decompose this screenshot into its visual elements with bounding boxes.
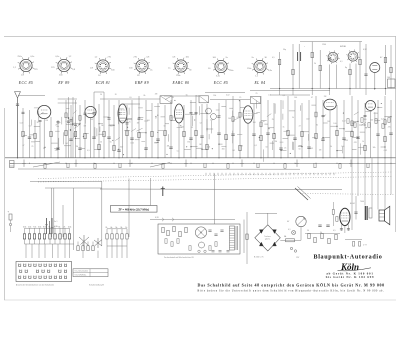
capacitor [107, 136, 110, 138]
svg-text:50µ: 50µ [283, 49, 286, 51]
svg-text:5k: 5k [320, 232, 322, 234]
wire stub [76, 137, 80, 139]
wire stage column [183, 105, 185, 158]
wire stage column [343, 100, 345, 158]
resistor [65, 130, 67, 135]
wire stub [264, 123, 268, 125]
wire stub [202, 148, 208, 150]
capacitor [92, 136, 95, 138]
svg-text:25: 25 [284, 147, 286, 149]
right lower small parts [308, 233, 337, 243]
wire stage column [75, 100, 77, 158]
Koeln underline flourish [338, 268, 372, 271]
svg-text:EZ 80: EZ 80 [340, 46, 346, 48]
svg-text:6.5k: 6.5k [68, 226, 71, 228]
wire stub [196, 147, 203, 149]
border frame right edge [395, 37, 397, 233]
svg-text:0,1: 0,1 [255, 145, 258, 147]
svg-text:270: 270 [51, 67, 55, 69]
value labels power section [272, 44, 390, 79]
capacitor small [322, 114, 325, 116]
wire power section [311, 42, 313, 89]
wire right verticals 2 [352, 158, 391, 230]
wire stub [35, 140, 40, 142]
wire stage column [267, 100, 269, 158]
IF transformer can Fi1 [160, 96, 172, 104]
svg-text:50: 50 [164, 126, 166, 128]
wire vertical pair A [51, 188, 53, 237]
capacitor [144, 147, 147, 149]
svg-text:6,3v: 6,3v [268, 70, 272, 72]
wire stub [298, 144, 302, 146]
svg-text:1M: 1M [171, 97, 174, 99]
wire FM mid column a [68, 97, 70, 158]
wire stub [381, 146, 385, 148]
wire stage column [145, 100, 147, 158]
wire stub [139, 132, 146, 134]
wire stub [289, 110, 295, 112]
svg-text:0,02: 0,02 [384, 150, 388, 152]
svg-text:30k: 30k [110, 125, 113, 127]
wire interstage top [205, 92, 245, 94]
svg-text:0,02: 0,02 [130, 142, 134, 144]
FM mid blobs [68, 117, 70, 119]
wire stub [344, 139, 348, 141]
wire stub [200, 112, 207, 114]
svg-text:gleichr.: gleichr. [265, 238, 271, 241]
capacitor [279, 147, 282, 149]
wire stub [30, 134, 34, 136]
vibrator box bottom row parts [198, 250, 230, 252]
diagonal jumper wire 2 [150, 163, 170, 168]
svg-text:0,5: 0,5 [283, 95, 286, 97]
bus wire y158 [5, 157, 396, 159]
resistor power section [349, 69, 351, 74]
fuse stack arrows [45, 224, 47, 226]
svg-text:270: 270 [34, 69, 38, 71]
vibrator rotary symbol [195, 227, 206, 238]
wire vertical E [128, 179, 130, 238]
battery terminal circle 1 [290, 247, 292, 249]
tube pentode V4 EBF89 envelope [243, 106, 253, 123]
svg-text:50: 50 [100, 94, 102, 96]
wire left of EL84 [332, 202, 334, 210]
wire bridge left vertical [246, 212, 248, 264]
power drop wires [280, 89, 386, 96]
wire interstage top [250, 90, 330, 92]
fuse box right [388, 79, 396, 88]
svg-text:0,02: 0,02 [342, 121, 346, 123]
svg-text:300: 300 [364, 119, 367, 121]
svg-text:0,8: 0,8 [90, 68, 94, 70]
capacitor [321, 138, 324, 140]
wire heater rail [150, 219, 235, 221]
resistor [364, 145, 366, 150]
battery terminal circle 2 [294, 250, 296, 252]
svg-text:0,8: 0,8 [21, 74, 25, 76]
svg-text:6,3V: 6,3V [363, 49, 367, 51]
right lower wire [305, 233, 340, 235]
wire power section [390, 45, 392, 89]
svg-text:50: 50 [299, 148, 301, 150]
wire feeder horizontal y181 [30, 180, 102, 182]
svg-text:1M: 1M [45, 120, 48, 122]
capacitor near EL84 [354, 211, 357, 213]
tube triode V6 envelope [366, 101, 376, 111]
resistor [151, 131, 153, 136]
svg-text:100: 100 [370, 119, 373, 121]
wire stage column [70, 105, 72, 158]
wire drop from dotted to ZF [150, 178, 152, 206]
svg-text:EL 84: EL 84 [253, 81, 265, 85]
capacitor small [138, 117, 141, 119]
wire power section [328, 65, 330, 89]
vibrator small circle [199, 242, 205, 248]
wire stub [146, 110, 152, 112]
resistor [50, 131, 52, 136]
wire FM mid column b [72, 97, 74, 158]
wire stage column [34, 120, 36, 158]
svg-text:1M: 1M [65, 143, 68, 145]
svg-text:25: 25 [272, 119, 274, 121]
volume control slanted wire 1 [295, 188, 308, 200]
wire x356 [355, 196, 357, 220]
svg-text:470: 470 [55, 150, 58, 152]
capacitor [169, 146, 172, 148]
wire tube cathode drop [247, 123, 249, 158]
resistor power section [359, 59, 361, 64]
wire stub [359, 124, 365, 126]
wire stub [330, 125, 337, 127]
wire stage column [65, 100, 67, 158]
svg-text:EY: EY [380, 57, 383, 59]
potentiometer body [296, 216, 306, 226]
wire stage column [384, 96, 386, 158]
left edge wire [10, 220, 12, 223]
chassis dotted line B [38, 177, 392, 183]
capacitor under EL84 b [347, 228, 350, 230]
svg-text:47: 47 [299, 126, 301, 128]
svg-text:+: + [8, 211, 10, 214]
resistor ladder row 3 [105, 227, 128, 246]
tone cap stack [318, 225, 329, 227]
resistor [183, 131, 185, 136]
svg-text:5k: 5k [115, 227, 117, 229]
svg-text:30k: 30k [373, 147, 376, 149]
svg-text:0,02: 0,02 [20, 123, 24, 125]
antenna coupling cap [16, 103, 19, 105]
wire stage column [273, 103, 275, 158]
wire power section [374, 73, 376, 91]
wire stage column [294, 100, 296, 158]
tube socket pinout EL 84 (V7) [247, 57, 272, 77]
resistor [84, 133, 86, 138]
svg-text:20: 20 [217, 117, 219, 119]
resistor [113, 145, 115, 150]
svg-text:100: 100 [341, 146, 344, 148]
svg-text:0,02: 0,02 [306, 119, 310, 121]
wire stub [283, 138, 289, 140]
svg-text:50: 50 [191, 127, 193, 129]
capacitor small [218, 115, 221, 117]
left edge terminal group [9, 214, 12, 220]
capacitor small [190, 112, 193, 114]
svg-text:D 77: D 77 [363, 245, 367, 247]
wire power section [355, 64, 357, 89]
chassis dotted line A [38, 172, 392, 179]
wire stage column [98, 104, 100, 158]
svg-text:8A: 8A [284, 235, 287, 238]
svg-text:47: 47 [155, 117, 157, 119]
comb ticks along chassis line [206, 173, 334, 175]
svg-text:20: 20 [100, 142, 102, 144]
capacitor [231, 133, 234, 135]
wire stub [31, 141, 35, 143]
wire vertical B [62, 205, 64, 237]
svg-text:5k: 5k [186, 94, 188, 96]
svg-text:2k: 2k [314, 63, 316, 65]
svg-text:25: 25 [43, 148, 45, 150]
wire stub [270, 142, 274, 144]
svg-text:0,25: 0,25 [381, 119, 385, 121]
legend table [73, 269, 108, 277]
wire stage column [113, 105, 115, 158]
wire stub [339, 128, 344, 130]
svg-text:2a: 2a [226, 57, 229, 59]
svg-text:0,02: 0,02 [310, 148, 314, 150]
capacitor small [93, 112, 96, 114]
resistor small [65, 113, 67, 118]
wire stub [261, 120, 267, 122]
resistor left of EL84 2 [336, 217, 338, 222]
resistor [138, 132, 140, 137]
wire stub [81, 147, 86, 149]
tube diode-triode V5 EABC80 envelope [324, 99, 336, 110]
tube triode V1b ECC85 [85, 106, 96, 117]
fuse symbol [286, 239, 295, 242]
wire stage column [39, 122, 41, 158]
wire stage column [218, 103, 220, 158]
svg-text:ECH 81: ECH 81 [95, 81, 111, 85]
supply line C [100, 188, 342, 191]
wire stage column [232, 96, 234, 158]
capacitor electrolytic plate 1 [297, 52, 299, 61]
capacitor small [108, 117, 111, 119]
svg-text:6k: 6k [58, 226, 60, 228]
wire drop x214 [214, 174, 216, 225]
wire stage column [126, 105, 128, 158]
svg-text:100: 100 [90, 119, 93, 121]
tube socket pinout EBF 89 (V4) [129, 57, 153, 77]
svg-text:1M: 1M [84, 125, 87, 127]
resistor power section [384, 57, 386, 62]
right column resistor row [347, 118, 390, 129]
wire stage column [322, 100, 324, 158]
resistor power section [292, 69, 294, 74]
resistor [206, 144, 208, 149]
capacitor small [364, 114, 367, 116]
volume control slanted wire 2 [298, 187, 311, 199]
resistor [336, 130, 338, 135]
svg-text:Zerhackerteil mit Wechselricht: Zerhackerteil mit Wechselrichter 6V [164, 256, 195, 259]
wire stub [64, 145, 71, 147]
wire stub [154, 141, 158, 143]
resistor [287, 130, 289, 135]
wire interstage top [123, 103, 140, 105]
capacitor [389, 132, 392, 134]
svg-text:1M: 1M [187, 142, 190, 144]
svg-text:Das Schaltbild auf Seite 48 en: Das Schaltbild auf Seite 48 entspricht d… [198, 282, 385, 287]
capacitor power section [328, 58, 331, 60]
svg-text:0,8: 0,8 [173, 57, 177, 59]
resistor small [239, 112, 241, 117]
svg-text:1k: 1k [362, 141, 364, 143]
wire stage column [79, 105, 81, 158]
bridge diode 4 [273, 242, 277, 246]
wire stub [108, 124, 114, 126]
wire stub [23, 135, 27, 137]
border frame left edge [4, 108, 6, 300]
svg-text:bis Gerät Nr. K 182 699: bis Gerät Nr. K 182 699 [326, 275, 375, 279]
fuse stack bold [46, 218, 48, 234]
wire stage column [29, 110, 31, 158]
svg-text:12V: 12V [296, 257, 300, 259]
resistor [225, 134, 227, 139]
dotted line right low [300, 194, 395, 195]
wire stub [190, 102, 196, 104]
switch cross 2 [94, 238, 102, 248]
power section upper rail [300, 41, 362, 43]
svg-text:2k: 2k [63, 226, 65, 228]
svg-text:EABC 80: EABC 80 [172, 81, 190, 85]
capacitor [28, 136, 31, 138]
capacitor small [195, 111, 198, 113]
bus wire y163 [10, 162, 396, 164]
wire stub [254, 113, 258, 115]
svg-text:470: 470 [354, 142, 357, 144]
capacitor electrolytic plate 2 [300, 52, 302, 61]
component value labels main band [20, 93, 391, 152]
resistor small [260, 122, 262, 127]
wire stub [191, 146, 198, 148]
svg-text:2.5k: 2.5k [28, 226, 31, 228]
wire stub [103, 116, 109, 118]
capacitor [78, 147, 81, 149]
wire bridge row [255, 213, 277, 215]
wire power section [298, 44, 300, 89]
svg-text:1M: 1M [319, 149, 322, 151]
svg-text:Schalterstellung M: Schalterstellung M [89, 283, 104, 286]
tube socket pinout ECC 85 (V1) [13, 56, 38, 76]
wire power section [336, 65, 338, 89]
svg-text:0,5: 0,5 [272, 57, 275, 59]
wire stage column [84, 100, 86, 158]
wire tube cathode drop [17, 98, 19, 158]
wire stub [378, 106, 382, 108]
battery wires [280, 239, 285, 241]
tube socket pinout EF 89 (V2) [51, 56, 76, 76]
tube pentode V2 EF89 envelope [118, 104, 127, 123]
junction dots on bus [17, 157, 386, 158]
svg-text:250v: 250v [247, 68, 251, 70]
oscillator coil L1 [206, 108, 212, 114]
svg-text:0,1: 0,1 [340, 61, 343, 63]
svg-text:2k: 2k [105, 227, 107, 229]
svg-text:0,5: 0,5 [200, 123, 203, 125]
wire stub [337, 150, 342, 152]
capacitor small [70, 119, 73, 121]
svg-text:3.5k: 3.5k [38, 226, 41, 228]
svg-text:300: 300 [120, 146, 123, 148]
svg-text:EF 89: EF 89 [57, 81, 69, 85]
svg-text:25: 25 [239, 97, 241, 99]
svg-text:100: 100 [213, 57, 217, 59]
svg-text:10k: 10k [154, 142, 157, 144]
capacitor small [118, 112, 121, 114]
resistor small [79, 115, 81, 120]
wire interstage top [164, 95, 199, 97]
switch contacts row 3 [19, 276, 67, 279]
svg-text:30k: 30k [213, 95, 216, 97]
svg-text:0k: 0k [110, 227, 112, 229]
oscillator coil L2 [211, 114, 217, 120]
vibrator components [162, 226, 224, 250]
capacitor [293, 137, 296, 139]
svg-text:Bitte ändern Sie die Unterschr: Bitte ändern Sie die Unterschrift unter … [198, 290, 385, 293]
resistor [315, 133, 317, 138]
svg-text:1M: 1M [240, 146, 243, 148]
svg-text:8.5k: 8.5k [43, 226, 46, 228]
wire stub [76, 123, 80, 125]
junction dots on bus 2 [29, 163, 392, 164]
potentiometer arrow [298, 218, 305, 225]
svg-text:0,1: 0,1 [268, 95, 271, 97]
wire vertical C [73, 188, 75, 250]
small bars bottom right [353, 242, 355, 247]
svg-text:0,02: 0,02 [65, 121, 69, 123]
capacitor [266, 132, 269, 134]
tube socket pinout ECC 85 (V6) [208, 57, 233, 77]
wire stub [288, 134, 295, 136]
svg-text:470: 470 [388, 127, 391, 129]
svg-text:S 1-4 Drucktasten: S 1-4 Drucktasten [75, 270, 89, 273]
tube triode V1a ECC85 [38, 105, 51, 118]
wire stage column [164, 105, 166, 158]
svg-text:2a: 2a [252, 57, 255, 59]
svg-text:0,1: 0,1 [288, 229, 291, 231]
wire tube cathode drop [43, 119, 45, 158]
capacitor [130, 137, 133, 139]
wire stub [161, 116, 166, 118]
svg-text:ECC 85: ECC 85 [18, 81, 33, 85]
wire stub [323, 137, 330, 139]
wire stub [99, 123, 103, 125]
wire stage column [287, 96, 289, 158]
svg-text:2M: 2M [324, 96, 327, 98]
svg-text:5k: 5k [37, 122, 39, 124]
between-bus small parts [44, 163, 369, 168]
IF transformer can Fi3 [251, 97, 261, 104]
wire stage column [336, 105, 338, 158]
power section top rail [270, 88, 396, 90]
wire feeder horizontal y188 [45, 187, 102, 189]
wire bridge top [267, 213, 269, 225]
wire vertical D [101, 181, 103, 246]
resistor small [315, 112, 317, 117]
bus wire y169 [18, 168, 300, 170]
svg-text:1M: 1M [275, 141, 278, 143]
wire stub [303, 131, 309, 133]
